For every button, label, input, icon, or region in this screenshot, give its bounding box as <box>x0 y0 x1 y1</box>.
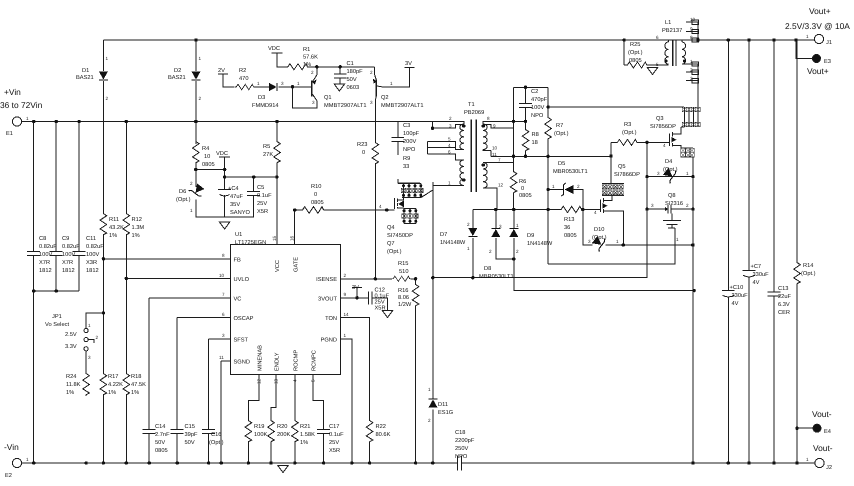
svg-text:D5: D5 <box>558 161 565 167</box>
svg-text:25V: 25V <box>257 201 267 207</box>
svg-text:R16: R16 <box>398 288 408 294</box>
svg-text:R20: R20 <box>277 424 287 430</box>
svg-text:R14: R14 <box>803 263 813 269</box>
svg-text:1: 1 <box>448 181 451 186</box>
svg-text:ISENSE: ISENSE <box>316 277 337 283</box>
svg-text:D10: D10 <box>594 227 604 233</box>
svg-text:R9: R9 <box>403 156 410 162</box>
svg-text:10: 10 <box>492 146 498 151</box>
svg-text:+Vin: +Vin <box>4 87 21 97</box>
svg-text:100V: 100V <box>39 252 52 258</box>
svg-text:1: 1 <box>106 56 109 61</box>
svg-text:2.7nF: 2.7nF <box>155 432 170 438</box>
svg-text:0.1uF: 0.1uF <box>329 432 344 438</box>
svg-text:1: 1 <box>467 246 470 251</box>
svg-text:1: 1 <box>26 116 29 121</box>
svg-text:SI7866DP: SI7866DP <box>614 172 640 178</box>
svg-text:4: 4 <box>379 204 382 209</box>
svg-text:D7: D7 <box>440 232 447 238</box>
svg-text:E4: E4 <box>824 429 831 435</box>
svg-text:13: 13 <box>274 378 279 384</box>
svg-text:C3: C3 <box>403 123 410 129</box>
svg-text:470pF: 470pF <box>531 97 548 103</box>
svg-text:330uF: 330uF <box>732 293 749 299</box>
svg-text:2: 2 <box>370 70 373 75</box>
svg-text:1: 1 <box>516 223 519 228</box>
svg-text:+C10: +C10 <box>730 285 744 291</box>
svg-text:C5: C5 <box>257 185 264 191</box>
svg-text:11: 11 <box>219 355 224 360</box>
svg-text:4V: 4V <box>753 280 760 286</box>
svg-text:6: 6 <box>656 35 659 40</box>
svg-text:BAS21: BAS21 <box>76 75 94 81</box>
svg-text:MMBT2907ALT1: MMBT2907ALT1 <box>324 103 367 109</box>
svg-text:180pF: 180pF <box>347 69 364 75</box>
svg-text:470: 470 <box>239 76 249 82</box>
svg-text:1N4148W: 1N4148W <box>440 240 466 246</box>
svg-text:0805: 0805 <box>564 233 577 239</box>
svg-text:C13: C13 <box>778 286 788 292</box>
svg-text:X7R: X7R <box>62 260 73 266</box>
svg-text:3: 3 <box>651 203 654 208</box>
svg-text:1/2W: 1/2W <box>398 301 412 308</box>
svg-text:1: 1 <box>676 237 679 242</box>
svg-text:1%: 1% <box>303 62 311 68</box>
svg-text:SANYO: SANYO <box>230 210 250 216</box>
svg-text:U1: U1 <box>235 232 242 238</box>
svg-text:E2: E2 <box>5 473 12 479</box>
svg-text:FB: FB <box>234 258 241 264</box>
svg-text:1: 1 <box>344 333 347 338</box>
svg-text:0: 0 <box>314 192 317 198</box>
svg-text:100pF: 100pF <box>403 131 420 137</box>
svg-text:3V: 3V <box>352 285 359 291</box>
svg-text:MBR0530LT1: MBR0530LT1 <box>479 274 514 280</box>
svg-text:NPO: NPO <box>403 147 416 153</box>
svg-text:4: 4 <box>448 143 451 148</box>
svg-text:2: 2 <box>106 96 109 101</box>
svg-text:R1: R1 <box>303 47 310 53</box>
svg-text:R21: R21 <box>300 424 310 430</box>
svg-text:Q2: Q2 <box>381 95 389 101</box>
svg-text:OSCAP: OSCAP <box>234 316 254 322</box>
svg-text:(Opt.): (Opt.) <box>801 270 816 277</box>
svg-text:L1: L1 <box>665 20 671 26</box>
svg-text:3.3V: 3.3V <box>65 344 77 350</box>
svg-text:1812: 1812 <box>39 268 52 274</box>
svg-text:R13: R13 <box>564 217 574 223</box>
svg-text:1: 1 <box>26 457 29 462</box>
svg-text:RCMPC: RCMPC <box>312 350 318 371</box>
svg-text:(Opt.): (Opt.) <box>592 234 607 241</box>
svg-text:1: 1 <box>190 208 193 213</box>
svg-text:ES1G: ES1G <box>438 410 453 416</box>
svg-text:C15: C15 <box>185 424 195 430</box>
svg-text:1: 1 <box>257 81 260 86</box>
svg-text:PB2069: PB2069 <box>464 110 484 116</box>
svg-text:Vout+: Vout+ <box>807 66 829 76</box>
svg-text:R18: R18 <box>131 374 141 380</box>
svg-text:6.3V: 6.3V <box>778 302 790 308</box>
svg-text:ENDLY: ENDLY <box>275 352 281 371</box>
svg-text:MBR0530LT1: MBR0530LT1 <box>553 169 588 175</box>
svg-text:MINENAB: MINENAB <box>258 345 264 371</box>
svg-text:+C4: +C4 <box>228 186 239 192</box>
svg-text:3V: 3V <box>405 61 412 67</box>
svg-text:57.6K: 57.6K <box>303 55 318 61</box>
svg-text:X3R: X3R <box>86 260 97 266</box>
svg-text:2: 2 <box>467 222 470 227</box>
svg-text:1812: 1812 <box>86 268 99 274</box>
svg-text:1: 1 <box>806 457 809 462</box>
svg-text:12: 12 <box>257 378 262 384</box>
svg-text:(Opt.): (Opt.) <box>209 439 224 446</box>
svg-text:TON: TON <box>325 316 337 322</box>
svg-text:MMBT2907ALT1: MMBT2907ALT1 <box>381 103 424 109</box>
svg-text:5: 5 <box>656 62 659 67</box>
svg-text:JP1: JP1 <box>52 314 62 320</box>
svg-text:50V: 50V <box>185 440 195 446</box>
svg-text:X5R: X5R <box>329 448 340 454</box>
svg-text:0: 0 <box>521 186 524 192</box>
svg-text:1: 1 <box>88 323 91 328</box>
svg-text:5: 5 <box>448 137 451 142</box>
svg-text:R23: R23 <box>357 142 367 148</box>
svg-text:UVLO: UVLO <box>234 277 250 283</box>
svg-text:D3: D3 <box>258 95 265 101</box>
svg-text:1.58K: 1.58K <box>300 432 315 438</box>
svg-text:4.22K: 4.22K <box>108 382 123 388</box>
svg-text:VDC: VDC <box>268 46 280 52</box>
svg-text:47.5K: 47.5K <box>131 382 146 388</box>
svg-text:C1: C1 <box>347 61 354 67</box>
svg-text:Q8: Q8 <box>668 193 676 199</box>
svg-text:16: 16 <box>290 235 295 241</box>
svg-text:100V: 100V <box>86 252 99 258</box>
svg-text:2: 2 <box>686 203 689 208</box>
svg-text:8: 8 <box>487 116 490 121</box>
svg-text:0805: 0805 <box>519 193 532 199</box>
svg-text:4: 4 <box>293 379 298 382</box>
svg-text:22uF: 22uF <box>778 294 791 300</box>
svg-text:X5R: X5R <box>375 306 386 312</box>
svg-text:FMMD914: FMMD914 <box>252 103 279 109</box>
svg-text:R19: R19 <box>254 424 264 430</box>
svg-text:5: 5 <box>311 379 316 382</box>
svg-text:2: 2 <box>428 418 431 423</box>
svg-text:2.5V/3.3V @ 10A: 2.5V/3.3V @ 10A <box>785 21 850 31</box>
svg-text:0: 0 <box>362 150 365 156</box>
svg-text:18: 18 <box>532 140 538 146</box>
svg-text:R17: R17 <box>108 374 118 380</box>
svg-text:R6: R6 <box>519 179 526 185</box>
svg-text:2: 2 <box>577 184 580 189</box>
svg-text:2200pF: 2200pF <box>455 438 475 444</box>
svg-text:VDC: VDC <box>216 151 228 157</box>
svg-text:NPO: NPO <box>531 113 544 119</box>
svg-text:C14: C14 <box>155 424 165 430</box>
svg-text:8: 8 <box>222 253 225 258</box>
svg-text:-Vin: -Vin <box>4 442 19 452</box>
svg-text:4: 4 <box>594 210 597 215</box>
svg-text:2: 2 <box>311 70 314 75</box>
svg-text:SFST: SFST <box>234 338 249 344</box>
svg-text:Vo Select: Vo Select <box>45 321 69 328</box>
svg-text:0805: 0805 <box>311 200 324 206</box>
svg-text:J2: J2 <box>826 465 832 471</box>
svg-text:2.5V: 2.5V <box>65 332 77 338</box>
svg-text:0805: 0805 <box>202 162 215 168</box>
svg-text:BAS21: BAS21 <box>168 75 186 81</box>
svg-text:3: 3 <box>588 239 591 244</box>
svg-text:4V: 4V <box>732 301 739 307</box>
svg-text:J1: J1 <box>826 40 832 46</box>
svg-text:R7: R7 <box>556 123 563 129</box>
svg-text:(Opt.): (Opt.) <box>628 49 643 56</box>
svg-text:0.82uF: 0.82uF <box>39 244 57 250</box>
svg-text:1%: 1% <box>300 440 308 446</box>
svg-text:3: 3 <box>370 100 373 105</box>
svg-text:7: 7 <box>498 158 501 163</box>
svg-text:CER: CER <box>778 310 790 316</box>
svg-text:3: 3 <box>657 171 660 176</box>
svg-text:36 to 72Vin: 36 to 72Vin <box>0 100 43 110</box>
svg-text:D4: D4 <box>665 159 672 165</box>
svg-text:0.82uF: 0.82uF <box>86 244 104 250</box>
svg-text:1%: 1% <box>66 390 74 396</box>
svg-text:R24: R24 <box>66 374 76 380</box>
svg-text:250V: 250V <box>455 446 468 452</box>
svg-text:43.2K: 43.2K <box>109 225 124 231</box>
svg-text:8.06: 8.06 <box>398 295 409 301</box>
svg-text:E1: E1 <box>6 131 13 137</box>
svg-text:X5R: X5R <box>257 209 268 215</box>
svg-text:D6: D6 <box>179 189 186 195</box>
svg-text:C2: C2 <box>531 89 538 95</box>
svg-text:(Opt.): (Opt.) <box>387 248 402 255</box>
svg-text:1: 1 <box>552 184 555 189</box>
svg-text:100V: 100V <box>62 252 75 258</box>
svg-text:10: 10 <box>204 154 210 160</box>
svg-text:Vout+: Vout+ <box>809 6 831 16</box>
svg-text:1: 1 <box>428 387 431 392</box>
svg-text:R3: R3 <box>624 122 631 128</box>
svg-text:1%: 1% <box>132 233 140 239</box>
svg-text:2: 2 <box>690 68 693 73</box>
svg-text:X7R: X7R <box>39 260 50 266</box>
svg-text:25V: 25V <box>329 440 339 446</box>
svg-text:NPO: NPO <box>455 454 468 460</box>
svg-text:SGND: SGND <box>234 360 250 366</box>
svg-text:C17: C17 <box>329 424 339 430</box>
svg-text:100V: 100V <box>531 105 544 111</box>
svg-text:2: 2 <box>516 249 519 254</box>
svg-text:Vout-: Vout- <box>812 409 832 419</box>
svg-text:3: 3 <box>88 355 91 360</box>
svg-text:(Opt.): (Opt.) <box>622 129 637 136</box>
svg-text:SI2316: SI2316 <box>665 201 683 207</box>
svg-text:R5: R5 <box>263 144 270 150</box>
svg-text:10: 10 <box>690 17 696 22</box>
svg-text:200K: 200K <box>277 432 290 438</box>
svg-text:C16: C16 <box>211 432 221 438</box>
svg-text:R10: R10 <box>311 184 321 190</box>
svg-text:D11: D11 <box>438 402 448 408</box>
svg-text:2: 2 <box>449 116 452 121</box>
svg-text:Q4: Q4 <box>387 225 395 231</box>
svg-text:(Opt.): (Opt.) <box>663 166 678 173</box>
svg-text:Q5: Q5 <box>618 164 626 170</box>
svg-text:VCC: VCC <box>275 260 281 272</box>
svg-text:0603: 0603 <box>347 85 360 91</box>
svg-text:1%: 1% <box>109 233 117 239</box>
svg-text:1: 1 <box>806 34 809 39</box>
svg-text:35V: 35V <box>230 202 240 208</box>
svg-text:3: 3 <box>281 81 284 86</box>
svg-text:R25: R25 <box>630 42 640 48</box>
svg-text:PGND: PGND <box>321 338 337 344</box>
svg-text:1N4148W: 1N4148W <box>527 241 553 247</box>
svg-text:R15: R15 <box>398 261 408 267</box>
svg-text:9: 9 <box>344 292 347 297</box>
svg-text:SI7856DP: SI7856DP <box>650 124 676 130</box>
svg-text:C9: C9 <box>62 236 69 242</box>
svg-text:T1: T1 <box>468 102 475 108</box>
svg-text:3: 3 <box>690 76 693 81</box>
svg-text:1812: 1812 <box>62 268 75 274</box>
svg-text:0.82uF: 0.82uF <box>62 244 80 250</box>
svg-text:R11: R11 <box>109 217 119 223</box>
svg-text:1: 1 <box>686 171 689 176</box>
svg-text:R22: R22 <box>376 424 386 430</box>
svg-text:Q3: Q3 <box>656 116 664 122</box>
svg-text:39pF: 39pF <box>185 432 198 438</box>
svg-text:11.8K: 11.8K <box>66 382 81 388</box>
svg-text:0805: 0805 <box>629 58 642 64</box>
svg-text:1%: 1% <box>131 390 139 396</box>
svg-text:36: 36 <box>564 225 570 231</box>
svg-text:1: 1 <box>199 56 202 61</box>
svg-text:80.6K: 80.6K <box>376 432 391 438</box>
svg-text:LT1725EGN: LT1725EGN <box>235 240 266 246</box>
svg-text:R2: R2 <box>239 68 246 74</box>
svg-text:GATE: GATE <box>294 257 300 272</box>
svg-text:8: 8 <box>690 35 693 40</box>
svg-text:9: 9 <box>690 27 693 32</box>
svg-text:2V: 2V <box>218 68 225 74</box>
svg-text:D2: D2 <box>174 68 181 74</box>
svg-text:R12: R12 <box>132 217 142 223</box>
svg-text:1: 1 <box>616 239 619 244</box>
svg-text:E3: E3 <box>824 59 831 65</box>
svg-text:PB2137: PB2137 <box>662 28 682 34</box>
svg-text:Vout-: Vout- <box>813 443 833 453</box>
svg-text:C11: C11 <box>86 236 96 242</box>
svg-text:0805: 0805 <box>155 448 168 454</box>
svg-text:3: 3 <box>312 100 315 105</box>
svg-text:C8: C8 <box>39 236 46 242</box>
svg-text:2: 2 <box>190 181 193 186</box>
svg-text:SI7450DP: SI7450DP <box>387 233 413 239</box>
svg-text:R8: R8 <box>532 132 539 138</box>
svg-text:12: 12 <box>498 183 504 188</box>
svg-text:15: 15 <box>272 235 277 241</box>
svg-text:1: 1 <box>690 59 693 64</box>
svg-text:100K: 100K <box>254 432 267 438</box>
svg-text:2: 2 <box>96 335 99 340</box>
svg-text:+C7: +C7 <box>751 264 762 270</box>
svg-text:11: 11 <box>492 152 497 157</box>
svg-text:330uF: 330uF <box>753 272 770 278</box>
svg-text:4: 4 <box>663 143 666 148</box>
svg-text:1: 1 <box>390 81 393 86</box>
svg-text:VC: VC <box>234 297 242 303</box>
svg-text:R4: R4 <box>202 146 209 152</box>
svg-text:3: 3 <box>222 333 225 338</box>
svg-text:(Opt.): (Opt.) <box>554 130 569 137</box>
svg-text:9: 9 <box>493 124 496 129</box>
svg-text:200V: 200V <box>403 139 416 145</box>
svg-text:1%: 1% <box>108 390 116 396</box>
svg-text:3: 3 <box>449 124 452 129</box>
svg-text:2: 2 <box>344 273 347 278</box>
svg-text:6: 6 <box>448 150 451 155</box>
svg-text:2: 2 <box>199 96 202 101</box>
svg-text:Q7: Q7 <box>387 241 395 247</box>
svg-text:C18: C18 <box>455 430 465 436</box>
svg-text:3: 3 <box>499 224 502 229</box>
svg-text:50V: 50V <box>347 77 357 83</box>
svg-text:7: 7 <box>222 292 225 297</box>
svg-text:510: 510 <box>399 269 409 275</box>
svg-text:33: 33 <box>403 164 409 170</box>
svg-text:D9: D9 <box>527 233 534 239</box>
svg-text:6: 6 <box>222 312 225 317</box>
svg-text:(Opt.): (Opt.) <box>176 196 191 203</box>
svg-text:27K: 27K <box>263 152 273 158</box>
svg-text:47uF: 47uF <box>230 194 243 200</box>
svg-text:3VOUT: 3VOUT <box>318 297 337 303</box>
svg-text:14: 14 <box>344 312 350 317</box>
svg-text:D8: D8 <box>484 266 491 272</box>
svg-text:0.1uF: 0.1uF <box>257 193 272 199</box>
svg-text:50V: 50V <box>155 440 165 446</box>
svg-text:1.3M: 1.3M <box>132 225 145 231</box>
svg-text:10: 10 <box>219 273 225 278</box>
svg-text:ROCMP: ROCMP <box>294 350 300 371</box>
svg-text:D1: D1 <box>82 68 89 74</box>
svg-text:1: 1 <box>297 81 300 86</box>
svg-text:2: 2 <box>489 249 492 254</box>
svg-text:Q1: Q1 <box>324 95 332 101</box>
